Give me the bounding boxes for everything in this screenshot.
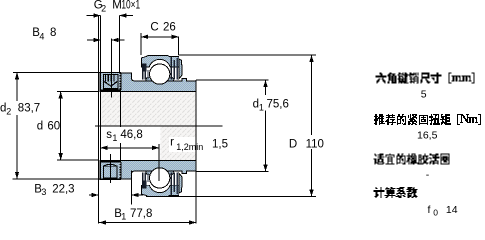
svg-text:14: 14 — [446, 204, 458, 216]
extension line d bottom — [57, 160, 98, 161]
svg-text:26: 26 — [163, 22, 176, 34]
svg-text:1,2min: 1,2min — [176, 142, 203, 152]
svg-text:22,3: 22,3 — [52, 183, 74, 195]
seal / flinger right — [170, 173, 172, 196]
seal / flinger left — [142, 181, 147, 189]
bearing centerline vertical — [159, 144, 160, 181]
spec header 3: suitable rubber seating ring — [374, 154, 450, 165]
inner ring race shoulders — [146, 77, 154, 81]
extension line C left — [141, 33, 142, 55]
ball — [150, 64, 170, 84]
svg-text:10×1: 10×1 — [121, 0, 140, 12]
svg-text:46,8: 46,8 — [120, 129, 142, 141]
extension line d1 bottom — [196, 171, 268, 172]
svg-text:f: f — [428, 204, 431, 216]
shaft (section, hatched) lower right part — [161, 127, 196, 160]
svg-text:60: 60 — [47, 121, 60, 133]
extension line d2 bottom — [13, 178, 100, 179]
extension line collar left face — [100, 16, 101, 179]
extension line C right — [178, 37, 179, 56]
ball — [150, 168, 170, 188]
extension line D top — [179, 55, 316, 56]
bearing upper half — [100, 55, 196, 91]
dimension s1 (inside arrows) — [100, 147, 159, 148]
spec header 4: calculation factor — [374, 187, 418, 198]
collar right face serration lower — [119, 162, 121, 178]
svg-text:1: 1 — [121, 211, 126, 221]
svg-text:r: r — [170, 137, 174, 149]
svg-text:5: 5 — [421, 88, 427, 100]
svg-text:1,5: 1,5 — [212, 139, 228, 151]
svg-text:3: 3 — [41, 187, 46, 197]
grub screw axis upper — [111, 39, 112, 98]
collar right face serration (thread marks) — [119, 74, 121, 90]
extension line B3 right — [131, 171, 132, 205]
dimension d2 (vertical) — [17, 72, 18, 101]
svg-text:4: 4 — [39, 31, 44, 41]
grub screw upper (threaded section) — [103, 74, 118, 88]
svg-text:C: C — [150, 22, 158, 34]
svg-text:d: d — [37, 121, 43, 133]
extension line d2 top — [13, 72, 100, 73]
eccentric locking collar (upper) — [100, 73, 120, 91]
bearing axis centerline — [95, 126, 223, 127]
eccentric locking collar (lower) — [100, 162, 120, 180]
inner ring extension sleeve — [100, 73, 196, 91]
dimension d (vertical) — [60, 91, 61, 160]
dimension d1 (vertical) — [265, 80, 266, 95]
svg-text:1: 1 — [259, 102, 264, 112]
dimension B4 (outside arrows) — [87, 40, 100, 41]
svg-text:110: 110 — [306, 138, 324, 150]
svg-text:0: 0 — [433, 207, 438, 217]
shaft (section, hatched) upper half — [101, 92, 196, 126]
svg-text:83,7: 83,7 — [18, 103, 40, 115]
extension line G2 right — [119, 16, 120, 73]
inner ring race shoulders — [146, 171, 154, 175]
svg-text:2: 2 — [101, 4, 106, 14]
extension line collar right face through shaft — [120, 91, 121, 160]
white box behind s1 label — [101, 127, 158, 143]
grub screw axis lower — [110, 154, 111, 183]
white box behind r label — [169, 137, 196, 152]
extension line d1 top — [196, 80, 268, 81]
dimension D (vertical) — [311, 55, 312, 135]
svg-text:8: 8 — [50, 27, 56, 39]
dimension B3 (outside arrows) — [89, 195, 98, 196]
svg-text:16,5: 16,5 — [417, 129, 438, 141]
svg-text:77,8: 77,8 — [130, 208, 152, 220]
svg-text:2: 2 — [6, 106, 11, 116]
extension line shaft left face — [98, 16, 99, 224]
outer ring — [142, 55, 179, 67]
spec header 1: hex key size [mm] — [376, 73, 475, 84]
bearing lower half (mirror) — [100, 161, 196, 197]
inner ring extension sleeve — [100, 161, 196, 179]
extension line inner ring right face / B1 right — [196, 80, 197, 224]
svg-text:-: - — [426, 169, 430, 181]
extension line d top — [57, 91, 98, 92]
svg-text:1: 1 — [112, 133, 117, 143]
seal / flinger left — [142, 64, 147, 72]
spec header 2: tightening torque [Nm] — [374, 114, 481, 125]
svg-text:s: s — [106, 129, 112, 141]
dimension G2 (outside arrows) — [87, 15, 101, 16]
dimension C (inside arrows) — [141, 36, 178, 37]
dimension B1 (inside arrows) — [99, 222, 196, 223]
svg-text:D: D — [289, 138, 297, 150]
seal / flinger right — [170, 57, 172, 80]
extension line D bottom — [146, 196, 316, 197]
grub screw lower (dome end visible) — [104, 166, 117, 178]
outer ring — [142, 185, 179, 197]
svg-text:75,6: 75,6 — [267, 99, 289, 111]
